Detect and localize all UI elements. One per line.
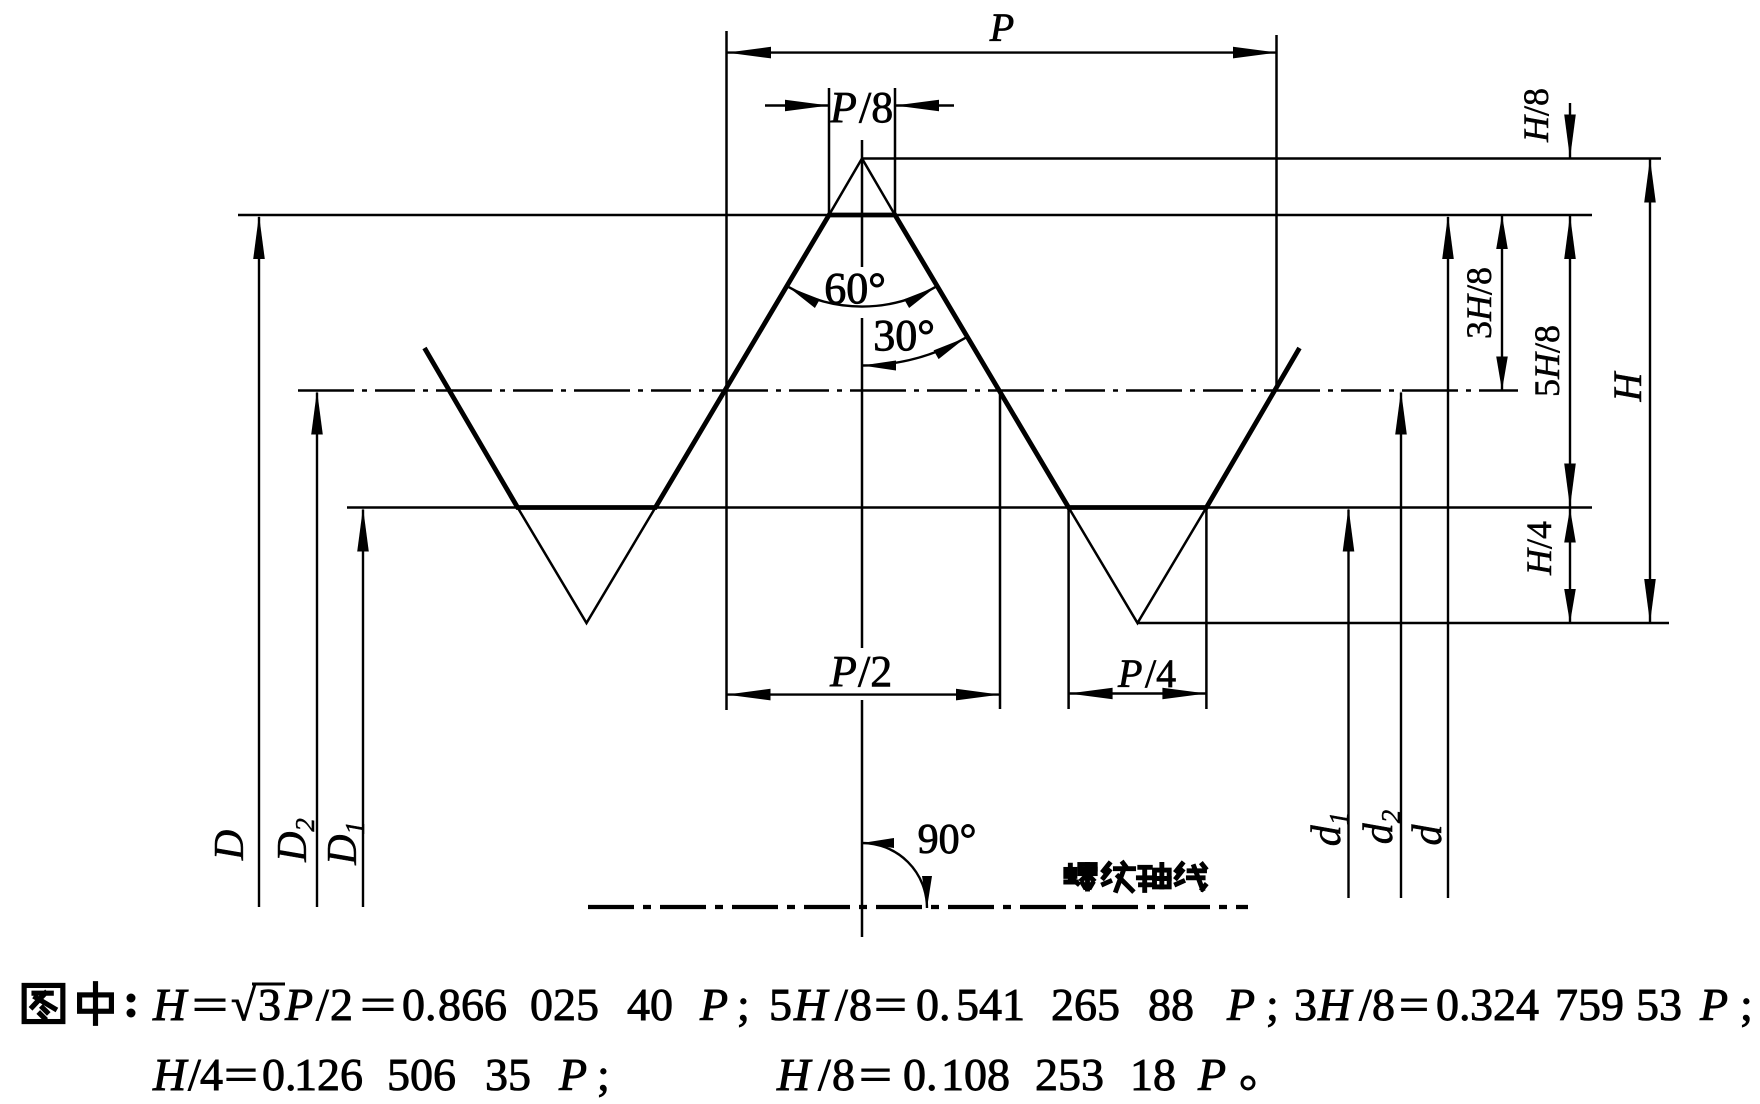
svg-text:265: 265	[1051, 979, 1120, 1030]
svg-text:108: 108	[941, 1049, 1010, 1100]
svg-text:P: P	[1117, 651, 1142, 696]
svg-text:025: 025	[530, 979, 599, 1030]
svg-text:/8: /8	[859, 83, 893, 132]
svg-text:35: 35	[485, 1049, 531, 1100]
svg-text:0.: 0.	[262, 1049, 297, 1100]
svg-text:8: 8	[849, 979, 872, 1030]
svg-text:60°: 60°	[824, 264, 886, 313]
svg-text:/: /	[316, 979, 329, 1030]
svg-text:=: =	[1399, 979, 1429, 1030]
svg-text:P: P	[829, 83, 857, 132]
svg-text:/4: /4	[1145, 651, 1176, 696]
svg-text:P: P	[1699, 979, 1728, 1030]
svg-text:88: 88	[1148, 979, 1194, 1030]
svg-text:40: 40	[627, 979, 673, 1030]
svg-text:P: P	[1226, 979, 1255, 1030]
svg-text:;: ;	[1740, 979, 1753, 1030]
svg-text:=: =	[360, 979, 396, 1030]
svg-text:d: d	[1405, 824, 1451, 846]
svg-text:53: 53	[1636, 979, 1682, 1030]
svg-text:126: 126	[294, 1049, 363, 1100]
svg-text:3H/8: 3H/8	[1459, 267, 1499, 339]
svg-text:H: H	[776, 1049, 813, 1100]
svg-text:5: 5	[769, 979, 792, 1030]
svg-text:H: H	[1605, 370, 1650, 402]
svg-text:0.: 0.	[1436, 979, 1471, 1030]
svg-text:;: ;	[1266, 979, 1279, 1030]
svg-text:3: 3	[1294, 979, 1317, 1030]
svg-text:=: =	[192, 979, 228, 1030]
svg-text:0.: 0.	[402, 979, 437, 1030]
svg-text:/: /	[1359, 979, 1372, 1030]
svg-text:D: D	[207, 830, 253, 861]
svg-text:5H/8: 5H/8	[1527, 325, 1567, 397]
svg-text:/: /	[818, 1049, 831, 1100]
svg-text:541: 541	[956, 979, 1025, 1030]
svg-text:P: P	[829, 647, 857, 696]
svg-text:=: =	[224, 1049, 258, 1100]
svg-text:;: ;	[597, 1049, 610, 1100]
svg-text:4: 4	[200, 1049, 223, 1100]
svg-text:P: P	[1197, 1049, 1226, 1100]
svg-text:P: P	[699, 979, 728, 1030]
svg-text:8: 8	[832, 1049, 855, 1100]
svg-text:H/4: H/4	[1519, 521, 1559, 576]
svg-text:/: /	[835, 979, 848, 1030]
svg-text:H: H	[152, 1049, 189, 1100]
svg-text:866: 866	[438, 979, 507, 1030]
svg-text:18: 18	[1130, 1049, 1176, 1100]
svg-text:√: √	[231, 979, 257, 1030]
svg-text:=: =	[874, 979, 907, 1030]
svg-text:H: H	[1317, 979, 1354, 1030]
svg-text:H: H	[152, 979, 189, 1030]
svg-text:=: =	[859, 1049, 892, 1100]
svg-text:506: 506	[387, 1049, 456, 1100]
svg-text:P: P	[558, 1049, 587, 1100]
svg-text:2: 2	[330, 979, 353, 1030]
svg-text:P: P	[284, 979, 313, 1030]
svg-text:;: ;	[737, 979, 750, 1030]
svg-text:0.: 0.	[916, 979, 951, 1030]
svg-text:3: 3	[258, 979, 281, 1030]
svg-text:759: 759	[1555, 979, 1624, 1030]
svg-text:H: H	[793, 979, 830, 1030]
svg-text:324: 324	[1470, 979, 1539, 1030]
svg-text:253: 253	[1035, 1049, 1104, 1100]
svg-text:P: P	[989, 5, 1014, 50]
svg-text:H/8: H/8	[1516, 88, 1556, 143]
svg-text:0.: 0.	[903, 1049, 938, 1100]
svg-text:/2: /2	[858, 647, 892, 696]
svg-text:8: 8	[1372, 979, 1395, 1030]
svg-text:90°: 90°	[918, 817, 977, 863]
svg-text:30°: 30°	[873, 311, 935, 360]
